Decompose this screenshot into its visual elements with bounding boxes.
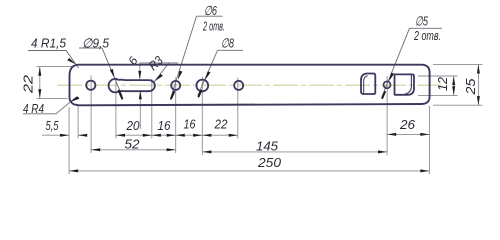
svg-text:22: 22 [214,117,229,132]
svg-text:25: 25 [463,78,478,96]
svg-text:4 R4: 4 R4 [23,101,44,116]
svg-text:5,5: 5,5 [46,118,60,133]
svg-text:20: 20 [126,118,141,133]
svg-text:22: 22 [21,74,36,94]
svg-text:∅8: ∅8 [221,36,235,51]
svg-text:2 отв.: 2 отв. [202,19,225,34]
svg-text:∅5: ∅5 [415,14,429,29]
svg-text:2 отв.: 2 отв. [413,28,441,43]
svg-text:145: 145 [256,139,279,154]
svg-text:4 R1,5: 4 R1,5 [31,36,67,51]
svg-text:12: 12 [435,76,450,91]
svg-text:26: 26 [399,117,416,132]
svg-text:16: 16 [158,118,172,133]
svg-text:∅9,5: ∅9,5 [82,36,110,51]
svg-text:250: 250 [257,155,282,170]
svg-text:16: 16 [184,117,197,132]
svg-text:52: 52 [125,137,141,152]
svg-text:∅6: ∅6 [204,3,218,18]
